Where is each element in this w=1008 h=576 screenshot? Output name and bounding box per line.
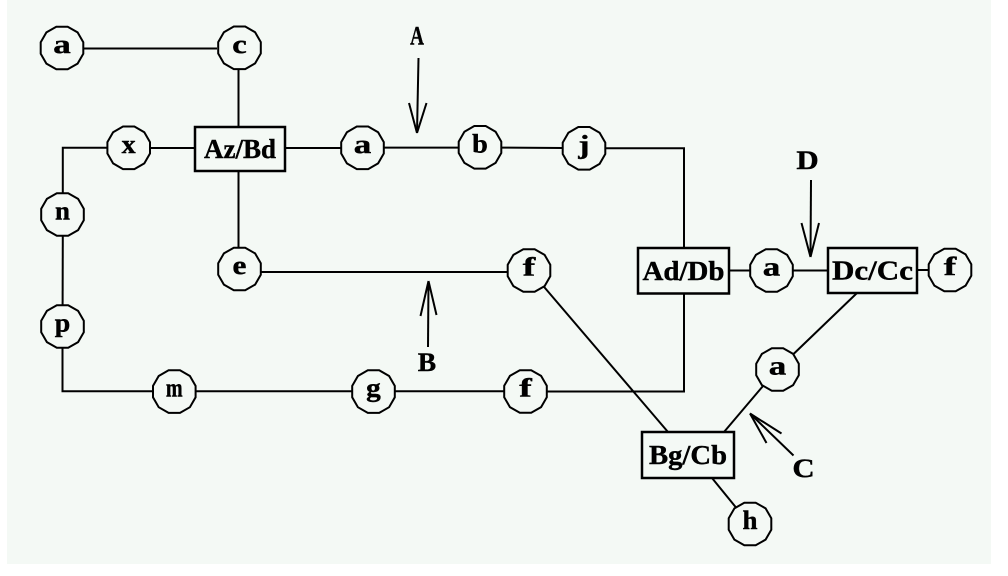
svg-text:Dc/Cc: Dc/Cc: [832, 256, 913, 286]
svg-text:C: C: [792, 454, 814, 483]
svg-text:Bg/Cb: Bg/Cb: [649, 440, 727, 470]
wire Dc/Cc-a diagonal: [793, 293, 857, 355]
node j: [563, 127, 606, 170]
svg-text:g: g: [366, 374, 381, 403]
node f (bottom): [504, 370, 547, 413]
arrow A (points down at a-b edge): [409, 22, 427, 134]
svg-text:p: p: [55, 309, 71, 338]
arrow B (points up at e-f edge): [418, 281, 437, 377]
wire a-Bg/Cb diagonal: [724, 386, 763, 432]
svg-text:a: a: [763, 253, 781, 282]
wire j corner down to Ad/Db: [606, 148, 685, 248]
node m: [153, 370, 196, 413]
arrow C (points up-left at a-Bg/Cb edge): [750, 414, 815, 484]
svg-text:b: b: [472, 129, 488, 158]
svg-text:B: B: [418, 348, 436, 377]
box Ad/Db: [638, 248, 729, 294]
node a (lower right): [756, 348, 799, 391]
wire Bg/Cb-h diagonal: [712, 478, 736, 508]
svg-text:j: j: [577, 130, 589, 159]
wire x corner to n: [63, 148, 108, 194]
svg-text:n: n: [55, 197, 71, 226]
box Az/Bd: [195, 127, 285, 171]
svg-text:h: h: [743, 506, 759, 535]
wire b-j: [502, 147, 563, 149]
wire f corner up to Ad/Db: [547, 294, 684, 392]
wire f-Bg/Cb diagonal: [542, 285, 668, 433]
node a (row 2): [341, 127, 384, 170]
wire Az/Bd-a: [285, 147, 341, 149]
node p: [41, 305, 84, 348]
node x: [107, 127, 150, 170]
wire e-f: [261, 271, 507, 273]
svg-text:Ad/Db: Ad/Db: [643, 256, 725, 286]
node c: [218, 27, 261, 70]
svg-text:f: f: [523, 253, 536, 282]
box Dc/Cc: [828, 248, 917, 293]
svg-text:f: f: [944, 252, 957, 281]
arrow D (points down at a-Dc/Cc edge): [796, 146, 819, 257]
box Bg/Cb: [642, 432, 734, 478]
svg-text:f: f: [519, 374, 532, 403]
svg-text:A: A: [410, 22, 424, 51]
svg-text:D: D: [796, 146, 818, 175]
wire m-g: [196, 390, 352, 392]
node a (right of Ad/Db): [750, 249, 793, 292]
wire Dc/Cc-f: [917, 269, 929, 271]
wire n-p: [62, 236, 64, 306]
node g: [352, 370, 395, 413]
wire a-b: [384, 147, 459, 149]
wire Ad/Db-a: [729, 270, 750, 272]
svg-text:a: a: [354, 130, 372, 159]
node e: [218, 248, 261, 291]
wire g-f: [395, 390, 504, 392]
svg-text:a: a: [769, 352, 787, 381]
svg-text:a: a: [53, 30, 71, 59]
svg-text:c: c: [232, 30, 247, 59]
wire a-Dc/Cc: [793, 270, 828, 272]
node f (far right): [929, 249, 972, 292]
node f (middle): [508, 249, 551, 292]
wire c-Az/Bd: [238, 69, 240, 127]
wire a-c: [83, 48, 217, 50]
svg-text:x: x: [122, 130, 136, 159]
node b: [459, 126, 502, 169]
wire Az/Bd-e: [238, 171, 240, 248]
wire x-Az/Bd: [151, 147, 196, 149]
svg-text:e: e: [233, 251, 247, 280]
node h: [729, 503, 772, 546]
node a (top-left): [41, 27, 84, 70]
svg-text:Az/Bd: Az/Bd: [204, 134, 276, 164]
svg-text:m: m: [166, 374, 183, 403]
node n: [41, 193, 84, 236]
wire p corner to m: [63, 348, 153, 391]
